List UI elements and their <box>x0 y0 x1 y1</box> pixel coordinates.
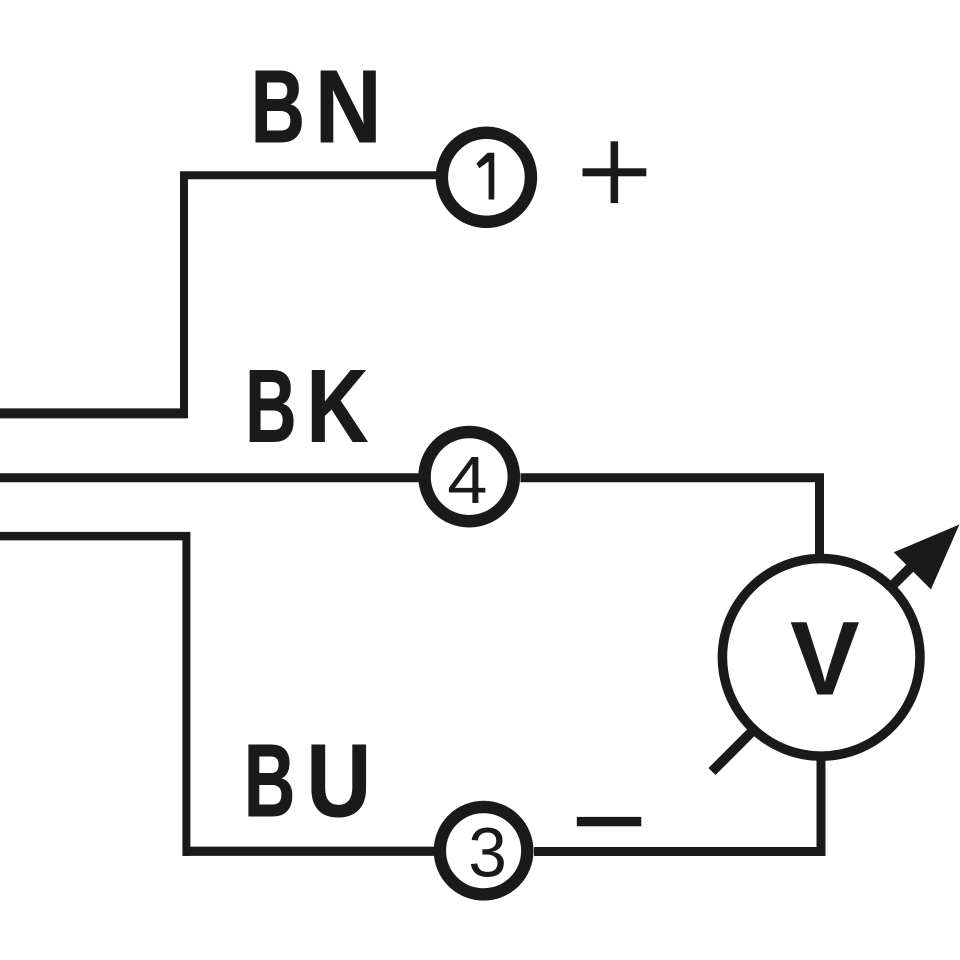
plus sign <box>583 141 647 203</box>
terminal circle pin 4 <box>425 432 514 521</box>
svg-text:V: V <box>790 600 860 717</box>
wire BU: bottom horizontal to pin 3 <box>183 847 435 856</box>
wire BK: from left edge to pin 4 <box>0 473 419 482</box>
svg-text:B: B <box>251 51 305 165</box>
wire from pin 3 to voltmeter bottom <box>534 757 821 852</box>
terminal circle pin 1 <box>442 133 531 222</box>
label BN <box>251 49 382 166</box>
svg-text:B: B <box>245 348 296 463</box>
svg-text:K: K <box>307 349 369 465</box>
pin number 1 <box>476 153 494 200</box>
svg-text:N: N <box>315 49 382 165</box>
arrowhead <box>894 525 960 590</box>
svg-text:3: 3 <box>468 814 507 892</box>
wire from pin 4 to voltmeter top <box>521 478 820 558</box>
wire BU: top horizontal from left edge <box>0 532 190 541</box>
svg-text:4: 4 <box>447 442 487 517</box>
label BK <box>245 348 368 464</box>
wire BN: lower horizontal from left edge <box>0 408 188 418</box>
svg-text:B: B <box>244 723 295 838</box>
wire BU: vertical down <box>182 532 190 856</box>
arrow shaft (upper-right segment) <box>894 558 921 585</box>
label BU <box>244 723 371 839</box>
terminal circle pin 3 <box>440 807 527 894</box>
svg-text:U: U <box>307 724 372 838</box>
wire BN: vertical and top run to pin 1 <box>184 175 437 417</box>
voltmeter V1 circle <box>722 559 920 757</box>
minus sign <box>577 817 642 826</box>
arrow tail (lower-left segment) <box>712 731 753 772</box>
